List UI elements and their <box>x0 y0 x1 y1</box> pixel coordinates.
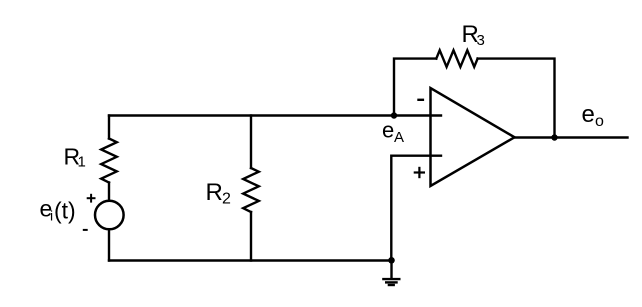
svg-text:3: 3 <box>477 32 485 49</box>
svg-text:e: e <box>582 101 595 128</box>
svg-text:A: A <box>394 129 404 146</box>
svg-text:(t): (t) <box>54 198 76 224</box>
svg-text:o: o <box>595 113 604 130</box>
svg-text:i: i <box>50 208 53 224</box>
svg-text:2: 2 <box>222 191 231 208</box>
svg-text:1: 1 <box>78 154 86 171</box>
svg-text:R: R <box>206 179 223 206</box>
svg-text:e: e <box>382 118 394 143</box>
